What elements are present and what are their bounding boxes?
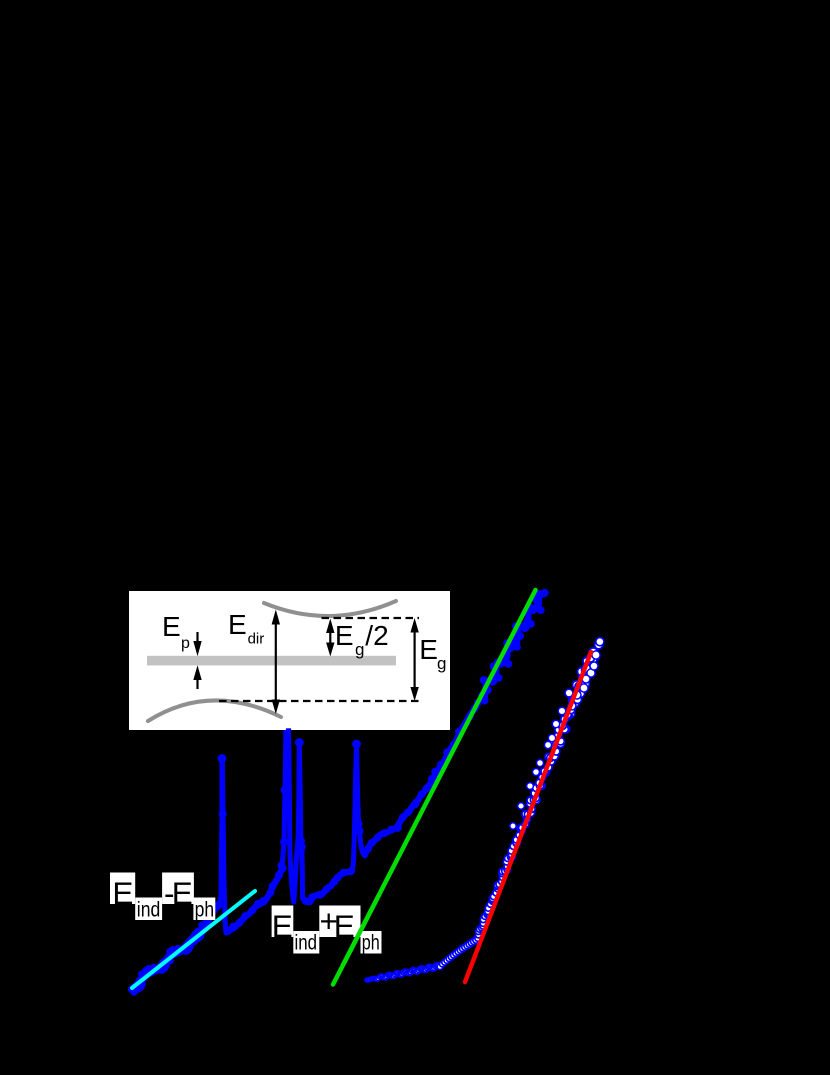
inset: E_dir double-headed arrow [275, 622, 277, 702]
svg-text:ph: ph [362, 932, 380, 955]
inset: conduction band parabola [264, 601, 396, 616]
spectrum data markers [128, 589, 549, 996]
svg-text:dir: dir [248, 631, 265, 648]
inset: upper dashed level [322, 617, 420, 619]
svg-text:ph: ph [195, 899, 215, 922]
svg-text:E: E [112, 875, 133, 911]
inset: E_p upper arrow (points down) [196, 632, 198, 644]
open-circle data set (white filled, blue edge) [365, 638, 604, 983]
inset: valence band parabola [148, 700, 281, 721]
inset: lower dashed level [219, 700, 419, 702]
svg-text:E: E [335, 620, 354, 651]
svg-text:E: E [228, 609, 247, 640]
inset: E_g/2 double-headed arrow [329, 630, 331, 645]
svg-text:p: p [181, 635, 190, 652]
svg-text:E: E [334, 908, 355, 944]
inset: E_p lower arrow (points up) [196, 678, 198, 689]
label E_ind+E_ph (white boxed) [272, 906, 294, 938]
blue photocurrent spectrum curve [132, 593, 545, 989]
label E_ind-E_ph (white boxed) [110, 873, 135, 905]
svg-text:E: E [272, 908, 293, 944]
svg-text:/2: /2 [365, 620, 388, 651]
svg-text:E: E [419, 634, 438, 665]
peak A tip poking over inset edge [286, 728, 291, 731]
blue spectrum thick section along cyan fit [132, 904, 220, 989]
svg-text:ind: ind [137, 899, 161, 922]
svg-text:g: g [437, 654, 446, 673]
inset band-structure diagram box [129, 591, 450, 730]
inset: gray impurity band [147, 656, 396, 666]
svg-text:E: E [172, 875, 193, 911]
inset: E_g double-headed arrow [414, 630, 416, 689]
svg-text:ind: ind [295, 932, 318, 955]
red fit line (direct-gap fit) [465, 652, 591, 982]
cyan fit line (E_ind - E_ph fit) [132, 891, 255, 988]
svg-text:g: g [355, 640, 364, 659]
svg-text:E: E [162, 611, 181, 642]
green fit line (E_ind + E_ph fit) [333, 590, 536, 985]
blue spectrum thick baseline overlays [228, 868, 282, 931]
